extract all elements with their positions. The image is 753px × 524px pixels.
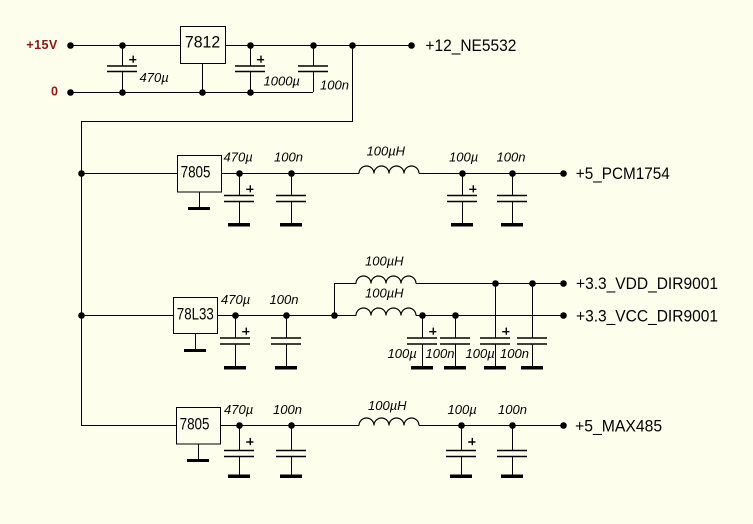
wire 7805 output rail (row2) — [221, 173, 359, 175]
node C2 top — [247, 42, 254, 49]
terminal +3.3_VCC_DIR9001 — [560, 312, 567, 319]
capacitor 100n C11 (VCC) — [440, 315, 470, 370]
node C13 top on VDD rail — [529, 280, 536, 287]
capacitor 100µ C10 (VCC) — [407, 315, 437, 370]
node C15 top — [288, 422, 295, 429]
svg-text:7805: 7805 — [180, 416, 210, 434]
svg-text:+15V: +15V — [26, 38, 57, 52]
inductor 100µH L4 — [359, 418, 419, 425]
wire to L2 — [334, 283, 356, 285]
svg-text:7812: 7812 — [185, 34, 220, 52]
node C17 top — [509, 422, 516, 429]
capacitor 100µ C12 (VDD, line crosses VCC rail) — [480, 283, 510, 370]
capacitor 100n C5 — [276, 173, 306, 227]
wire main bus from +12 node down left side to row 4 — [82, 45, 353, 426]
node C3 top — [310, 42, 317, 49]
svg-text:100µH: 100µH — [368, 398, 407, 413]
inductor 100µH L1 — [359, 166, 419, 173]
svg-text:100µ: 100µ — [466, 346, 495, 361]
svg-text:470µ: 470µ — [224, 150, 253, 165]
wire L1 to +5_PCM1754 terminal — [419, 173, 563, 175]
svg-text:100µH: 100µH — [365, 254, 404, 269]
wire 78L33 output rail (row3) — [217, 315, 356, 317]
capacitor 100µ C16 — [446, 425, 476, 478]
terminal +15V — [67, 42, 74, 49]
terminal +3.3_VDD_DIR9001 — [560, 280, 567, 287]
svg-text:+3.3_VCC_DIR9001: +3.3_VCC_DIR9001 — [576, 306, 718, 325]
svg-text:100µH: 100µH — [367, 144, 406, 159]
svg-text:470µ: 470µ — [221, 292, 250, 307]
ground U3 — [184, 333, 206, 352]
inductor 100µH L2 (VDD) — [356, 276, 416, 283]
svg-text:100µH: 100µH — [365, 286, 404, 301]
capacitor 100n C9 — [271, 315, 301, 370]
ground U2 — [188, 192, 210, 211]
node C5 top — [288, 170, 295, 177]
capacitor 1000µ C2 (output electrolytic) — [235, 45, 265, 92]
svg-text:0: 0 — [51, 85, 58, 99]
node C9 top — [283, 312, 290, 319]
capacitor 100n C3 — [298, 45, 328, 92]
svg-text:100n: 100n — [497, 150, 526, 165]
terminal 0 — [67, 89, 74, 96]
wire +15V rail to 7812 input — [70, 45, 180, 47]
svg-text:+5_PCM1754: +5_PCM1754 — [576, 164, 670, 183]
node C14 top — [236, 422, 243, 429]
node VDD/VCC branch junction — [331, 312, 338, 319]
node bus to row2 — [78, 170, 85, 177]
svg-text:100µ: 100µ — [449, 150, 478, 165]
inductor 100µH L3 (VCC) — [356, 308, 416, 315]
svg-text:7805: 7805 — [181, 164, 211, 182]
capacitor 100n C13 (VDD, line crosses VCC rail) — [517, 283, 547, 370]
svg-text:100n: 100n — [498, 402, 527, 417]
node 7812 gnd pin on 0 rail — [199, 89, 206, 96]
svg-text:+5_MAX485: +5_MAX485 — [575, 417, 662, 436]
regulator 7805 U4 — [177, 408, 221, 445]
node C1 bottom — [119, 89, 126, 96]
svg-text:100n: 100n — [320, 78, 349, 93]
node C4 top — [236, 170, 243, 177]
capacitor 100n C15 — [276, 425, 306, 478]
svg-text:100n: 100n — [426, 346, 455, 361]
node bus to row3 — [78, 312, 85, 319]
svg-text:470µ: 470µ — [224, 402, 253, 417]
wire bus to 7805 input (row2) — [81, 173, 177, 175]
wire branch up to VDD inductor — [334, 283, 336, 315]
svg-text:+3.3_VDD_DIR9001: +3.3_VDD_DIR9001 — [576, 274, 718, 293]
svg-text:470µ: 470µ — [140, 70, 169, 85]
node C1 top — [119, 42, 126, 49]
regulator 7812 U1 — [181, 27, 226, 64]
svg-text:100µ: 100µ — [448, 402, 477, 417]
node +12 branch junction — [349, 42, 356, 49]
wire 0 rail — [70, 92, 313, 94]
wire bus to 7805 input (row4) — [81, 425, 176, 427]
wire L2 to +3.3_VDD terminal — [416, 283, 563, 285]
node C12 top on VDD rail — [492, 280, 499, 287]
node C7 top — [509, 170, 516, 177]
terminal +5_PCM1754 — [560, 170, 567, 177]
capacitor 100µ C6 — [447, 173, 477, 227]
wire L3 to +3.3_VCC terminal — [416, 315, 563, 317]
regulator 7805 U2 — [178, 156, 222, 193]
capacitor 470µ C8 — [220, 315, 250, 370]
capacitor 100n C17 — [497, 425, 527, 478]
capacitor 470µ C14 — [224, 425, 254, 478]
capacitor 100n C7 — [497, 173, 527, 227]
node C16 top — [458, 422, 465, 429]
capacitor 470µ C1 (input electrolytic) — [107, 45, 137, 92]
wire bus to 78L33 input — [81, 315, 173, 317]
wire 7812 ground pin — [202, 63, 204, 92]
svg-text:100n: 100n — [274, 150, 303, 165]
regulator 78L33 U3 — [174, 298, 218, 334]
svg-text:100n: 100n — [270, 292, 299, 307]
svg-text:+12_NE5532: +12_NE5532 — [425, 36, 516, 55]
node C6 top — [459, 170, 466, 177]
wire L4 to +5_MAX485 terminal — [419, 425, 563, 427]
node C10 top — [419, 312, 426, 319]
svg-text:100µ: 100µ — [388, 346, 417, 361]
node C11 top — [452, 312, 459, 319]
wire 7812 output to +12 terminal — [225, 45, 411, 47]
svg-text:100n: 100n — [500, 346, 529, 361]
node C2 bottom — [247, 89, 254, 96]
svg-text:100n: 100n — [273, 402, 302, 417]
svg-text:78L33: 78L33 — [177, 305, 214, 323]
svg-text:1000µ: 1000µ — [264, 74, 300, 89]
node C8 top — [232, 312, 239, 319]
terminal +5_MAX485 — [560, 422, 567, 429]
capacitor 470µ C4 — [224, 173, 254, 227]
ground U4 — [187, 444, 209, 463]
terminal +12_NE5532 — [408, 42, 415, 49]
wire 7805 output rail (row4) — [220, 425, 359, 427]
